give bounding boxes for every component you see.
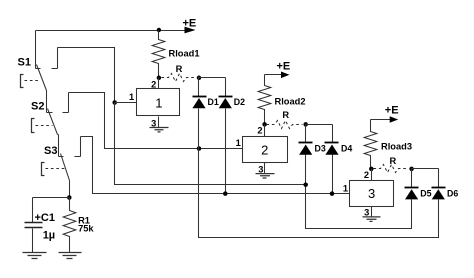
svg-text:D6: D6: [447, 188, 458, 198]
svg-text:3: 3: [258, 164, 263, 174]
switch S1 common wire: [36, 31, 41, 69]
wire S2 branch to pin 1 of block 2: [69, 93, 243, 149]
switch S2 actuator dashed link: [36, 125, 53, 127]
svg-text:+E: +E: [183, 18, 197, 30]
svg-text:+E: +E: [385, 105, 399, 117]
wire node A to pin 1 of block 1: [115, 102, 137, 104]
svg-text:1: 1: [343, 184, 348, 194]
svg-text:+C1: +C1: [35, 212, 56, 224]
wire to D4 top: [306, 124, 333, 126]
svg-text:D1: D1: [208, 97, 219, 107]
ground under block 1: [150, 128, 169, 132]
pin 2 wire of block 3: [371, 169, 373, 181]
diode D2: [225, 78, 227, 97]
ground under R1: [59, 253, 82, 259]
capacitor C1: [32, 198, 34, 223]
wire S2 lever to S3 common: [58, 135, 64, 157]
switch S3 NO contact: [75, 137, 81, 157]
svg-text:+E: +E: [277, 60, 291, 72]
power +E arrow 1: [185, 27, 196, 34]
power +E arrow 3: [371, 119, 391, 121]
resistor Rload2: [258, 75, 271, 125]
block U3: [350, 181, 394, 207]
wire S3 branch to pin 1 of block 3: [81, 137, 350, 194]
node B junction D1/feedback on pin1 wire of block 2: [197, 146, 202, 151]
wire S1 branch to node A: [58, 48, 115, 103]
diode D4: [332, 125, 334, 143]
switch S3 actuator dashed link: [46, 168, 65, 170]
resistor Rload1: [152, 31, 165, 78]
svg-text:1: 1: [129, 92, 134, 102]
svg-text:2: 2: [364, 170, 369, 180]
pin 2 wire of block 2: [264, 125, 266, 137]
switch S1 NO contact: [52, 48, 58, 69]
node output 2 (pin 2 of block 2): [262, 122, 267, 127]
resistor R stage 2 (dashed): [267, 121, 303, 129]
svg-text:Rload3: Rload3: [381, 142, 412, 152]
svg-text:D5: D5: [420, 188, 431, 198]
svg-text:S3: S3: [44, 145, 57, 157]
svg-text:1: 1: [155, 95, 162, 110]
wire node A down to feedback: [115, 103, 306, 185]
svg-text:D3: D3: [315, 143, 326, 153]
resistor R stage 1 (dashed): [162, 74, 197, 82]
resistor R1: [63, 198, 76, 253]
resistor Rload3: [364, 120, 377, 169]
wire S3 lever to node C: [69, 181, 71, 198]
node D3 feedback junction: [303, 182, 308, 187]
svg-text:3: 3: [368, 186, 375, 201]
block U2: [243, 137, 288, 163]
pin 3 wire of block 3: [371, 207, 373, 217]
svg-text:D2: D2: [234, 97, 245, 107]
resistor R stage 3 (dashed): [374, 165, 409, 173]
pin 3 wire of block 1: [158, 117, 160, 128]
wire to D2 top: [199, 77, 226, 79]
node R2 stage right: [303, 122, 308, 127]
svg-text:D4: D4: [341, 143, 352, 153]
svg-text:Rload2: Rload2: [275, 96, 306, 106]
node C junction C1/R1: [67, 195, 72, 200]
svg-text:2: 2: [151, 79, 156, 89]
node A (pin1 of block 1): [112, 100, 117, 105]
node R1 stage right: [197, 76, 202, 81]
svg-text:1µ: 1µ: [43, 230, 55, 242]
ground under C1: [23, 253, 47, 259]
diode D1: [198, 78, 200, 97]
switch S1 lever: [37, 65, 47, 91]
ground under block 3: [363, 217, 381, 222]
wire to D6 top: [412, 168, 439, 170]
node D4 to block3 input wire: [330, 191, 335, 196]
power +E arrow 2: [265, 74, 283, 76]
diode D5: [411, 169, 413, 188]
switch S2 actuator bracket: [32, 119, 35, 133]
diode D6: [438, 169, 440, 188]
ground under block 2: [256, 174, 275, 178]
switch S3 lever: [61, 154, 70, 181]
svg-text:3: 3: [151, 118, 156, 128]
wire node C to C1: [33, 197, 70, 199]
svg-text:2: 2: [261, 142, 268, 157]
svg-text:Rload1: Rload1: [169, 49, 200, 59]
wire top +E rail: [36, 30, 185, 32]
wire S1 lever to S2 common: [47, 91, 53, 113]
diode D3: [305, 125, 307, 143]
svg-text:1: 1: [236, 138, 241, 148]
block U1: [137, 89, 180, 116]
switch S1 actuator dashed link: [25, 80, 41, 82]
switch S2 lever: [48, 109, 58, 135]
node output 3 (pin 2 of block 3): [369, 167, 374, 172]
switch S3 actuator bracket: [42, 163, 45, 176]
svg-text:R: R: [176, 64, 183, 74]
svg-text:75k: 75k: [78, 224, 94, 234]
svg-text:3: 3: [364, 207, 369, 217]
node D2 to block3 input wire: [223, 191, 228, 196]
node output 1 (pin 2 of block 1): [157, 76, 162, 81]
pin 3 wire of block 2: [264, 163, 266, 174]
wire feedback D1 node to D6 bottom: [199, 149, 439, 238]
node junction rail/Rload1: [157, 28, 161, 32]
svg-text:2: 2: [257, 125, 262, 135]
pin 2 wire of block 1: [158, 78, 160, 89]
switch S2 NO contact: [63, 93, 69, 113]
svg-text:S2: S2: [31, 100, 44, 112]
switch S1 actuator bracket: [21, 75, 24, 88]
node R3 stage right: [409, 167, 414, 172]
svg-text:R: R: [390, 156, 397, 166]
svg-text:S1: S1: [18, 56, 31, 68]
svg-text:R: R: [282, 110, 289, 120]
